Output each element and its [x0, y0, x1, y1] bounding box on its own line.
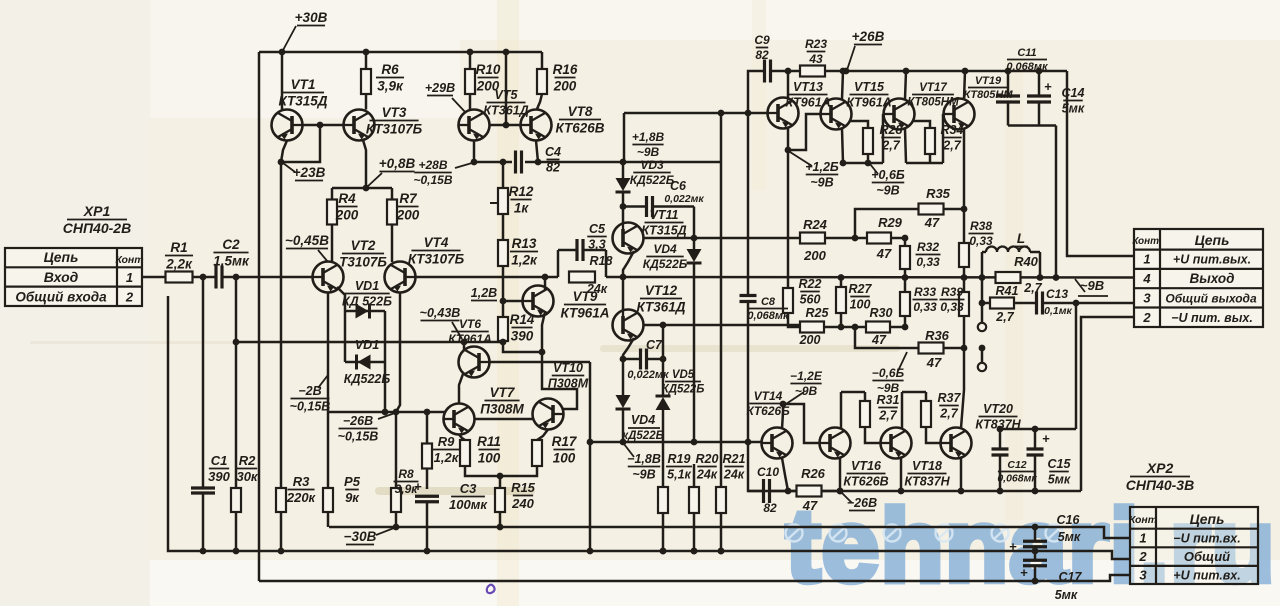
- wire VT11 emitter to output rail: [623, 251, 634, 277]
- wire +26V rail: [846, 70, 1067, 73]
- svg-text:24к: 24к: [586, 282, 608, 296]
- wire VT12 bottom to C7: [623, 338, 634, 359]
- svg-text:R33: R33: [914, 285, 936, 299]
- svg-text:0,068мк: 0,068мк: [747, 310, 790, 322]
- capacitor C3 100mk: [415, 495, 439, 498]
- wire VT16 collector to -26V rail: [839, 458, 842, 491]
- wire +U pit vkh bottom rail to XP2 pin3: [259, 575, 1130, 581]
- svg-text:С3: С3: [460, 481, 477, 496]
- node R18/C5 to VT11-VT12 column: [620, 274, 627, 281]
- svg-text:R4: R4: [338, 191, 356, 206]
- wire VT12 e/c right: [643, 324, 663, 327]
- node VT9 base / 1,2V: [500, 298, 507, 305]
- svg-text:R23: R23: [805, 37, 827, 51]
- svg-text:С17: С17: [1059, 570, 1083, 584]
- resistor R11 100: [460, 440, 470, 466]
- capacitor C10 82: [762, 479, 765, 503]
- resistor R9 1,2k: [426, 412, 429, 444]
- resistor R41 2,7: [982, 302, 990, 305]
- svg-text:VD5: VD5: [672, 369, 695, 381]
- wire VD3 column from C4 line: [620, 159, 627, 166]
- svg-text:ХР1: ХР1: [83, 203, 111, 219]
- svg-text:С16: С16: [1057, 513, 1081, 527]
- wire VD4 column: [693, 207, 696, 250]
- transistor VT16 KT626V: [820, 428, 851, 459]
- transistor VT6 KT961A: [459, 347, 490, 378]
- diode VD1 KD522B (lower, antiparallel pair): [344, 311, 347, 362]
- resistor R25 200: [800, 322, 824, 333]
- svg-text:VT3: VT3: [382, 105, 407, 120]
- svg-text:−U пит.вх.: −U пит.вх.: [1173, 532, 1240, 546]
- resistor R26 47: [788, 490, 797, 493]
- svg-text:L: L: [1017, 231, 1025, 246]
- svg-text:R14: R14: [510, 312, 535, 327]
- svg-text:VT4: VT4: [424, 235, 449, 250]
- node R32 top: [902, 235, 909, 242]
- svg-text:2,7: 2,7: [1023, 281, 1042, 295]
- wire VT7 base to VT10: [475, 418, 534, 421]
- svg-text:П308М: П308М: [548, 376, 589, 390]
- svg-text:+1,2Б: +1,2Б: [805, 160, 839, 174]
- wire +30V top rail: [259, 51, 542, 54]
- capacitor C7 0,022mk: [623, 358, 639, 361]
- svg-text:КТ626В: КТ626В: [556, 120, 605, 135]
- svg-text:82: 82: [763, 501, 777, 515]
- wire VT14 collector to -26V rail: [782, 458, 788, 491]
- svg-text:R20: R20: [696, 452, 719, 466]
- wire VT5-VT8 base tie with pullup: [490, 124, 521, 127]
- diode VD4 KD522B (lower): [616, 395, 631, 408]
- wire VT18 collector to -26V rail: [900, 458, 903, 491]
- svg-text:С12: С12: [1007, 459, 1026, 471]
- node VD4 lower at base line: [620, 439, 627, 446]
- svg-text:кД522Б: кД522Б: [622, 430, 663, 442]
- node C16/C17 at common rail: [1032, 548, 1039, 555]
- wire VT13 collector to +26V rail: [787, 71, 790, 98]
- svg-text:5мк: 5мк: [1062, 101, 1085, 115]
- resistor R1 2,2k: [166, 272, 193, 283]
- svg-text:4: 4: [1142, 271, 1151, 286]
- svg-text:VT16: VT16: [851, 459, 882, 473]
- svg-text:9к: 9к: [345, 490, 360, 505]
- resistor R33 0,33: [904, 278, 907, 293]
- svg-text:1: 1: [1143, 252, 1150, 267]
- wire VT19 emitter down to R35 node: [963, 129, 966, 209]
- resistor R34 2,7: [912, 121, 930, 128]
- resistor R22 560 from VT13 emitter: [787, 150, 790, 288]
- wire VT14 base line: [590, 441, 762, 444]
- node R32 at output rail: [902, 274, 909, 281]
- node -26V label point: [837, 488, 844, 495]
- node output at L right: [1037, 274, 1044, 281]
- svg-text:КТ626В: КТ626В: [843, 474, 888, 488]
- wire VT20 emitter up to R36 node: [961, 348, 964, 428]
- resistor R10 200: [467, 49, 474, 56]
- svg-text:R22: R22: [799, 277, 822, 291]
- svg-text:47: 47: [926, 355, 942, 370]
- svg-text:3: 3: [1139, 568, 1147, 583]
- wire VT13 emitter to VT15 base: [787, 128, 790, 150]
- node +23V: [278, 159, 285, 166]
- capacitor C8 0,068mk: [740, 294, 757, 297]
- node VT14 collector at -26V rail: [785, 488, 792, 495]
- resistor R12 1k: [502, 162, 505, 188]
- wire VT9 emitter column to VT10 base loop: [542, 352, 577, 409]
- wire feedback line to R14 bottom: [236, 341, 503, 344]
- node C11/C14 at output rail: [1053, 274, 1060, 281]
- resistor R19 5,1k: [662, 442, 665, 487]
- svg-text:5мк: 5мк: [1058, 530, 1081, 544]
- resistor R4 200: [331, 188, 334, 200]
- wire C12/C15 top bus: [1000, 428, 1076, 431]
- transistor VT5 KT361D: [459, 110, 490, 141]
- svg-text:R31: R31: [877, 393, 900, 407]
- svg-text:47: 47: [876, 246, 892, 261]
- measurement point open circle upper: [978, 323, 986, 331]
- svg-text:VT8: VT8: [568, 104, 593, 119]
- wire VT1 emitter loop to +23V node: [281, 141, 287, 163]
- svg-text:С7: С7: [646, 338, 663, 352]
- transistor VT13 KT961A: [768, 98, 799, 129]
- svg-text:R10: R10: [476, 62, 501, 77]
- svg-text:+28В: +28В: [418, 158, 447, 172]
- svg-text:С13: С13: [1046, 287, 1068, 301]
- resistor R21 24k: [720, 114, 723, 487]
- wire VT13 base line: [623, 113, 626, 162]
- svg-text:240: 240: [511, 496, 534, 511]
- transistor VT9 KT961A: [523, 286, 554, 317]
- svg-text:Общий входа: Общий входа: [15, 290, 107, 305]
- svg-text:Цепь: Цепь: [1195, 232, 1230, 248]
- svg-text:VD1: VD1: [355, 338, 379, 352]
- svg-text:+U пит.вх.: +U пит.вх.: [1173, 569, 1240, 583]
- wire VT2 collector down to -26V rail and R5: [327, 293, 330, 413]
- svg-text:~9В: ~9В: [876, 183, 899, 197]
- svg-text:R18: R18: [590, 254, 613, 268]
- svg-text:СНП40-3В: СНП40-3В: [1126, 477, 1194, 493]
- wire output mid rail (to Vykhod): [606, 276, 1134, 279]
- node VD4 top: [691, 235, 698, 242]
- svg-text:VT13: VT13: [793, 80, 823, 94]
- svg-text:VT1: VT1: [291, 77, 316, 92]
- resistor R14 390: [502, 301, 505, 317]
- wire VT6 base line corner down: [589, 362, 592, 442]
- svg-text:1,2к: 1,2к: [434, 450, 460, 465]
- wire C4 line: [474, 161, 512, 164]
- transistor VT3 KT3107B: [344, 110, 375, 141]
- svg-text:VT15: VT15: [854, 80, 885, 94]
- svg-text:1к: 1к: [514, 200, 530, 215]
- svg-text:С14: С14: [1062, 86, 1085, 100]
- svg-text:2,7: 2,7: [939, 406, 958, 420]
- node C4 line left end: [471, 159, 478, 166]
- resistor R28 2,7: [850, 121, 868, 128]
- wire VT1 base to VT3: [303, 124, 344, 127]
- wire VT3 collector to +0,8V node: [363, 140, 366, 188]
- svg-text:КТ961А: КТ961А: [561, 305, 610, 320]
- svg-text:КТ3107Б: КТ3107Б: [366, 121, 423, 136]
- svg-text:200: 200: [803, 248, 826, 263]
- svg-text:R19: R19: [668, 452, 691, 466]
- node R14 bottom with feedback line: [502, 341, 505, 342]
- wire XP1 pin1 to R1: [142, 276, 166, 279]
- svg-text:С8: С8: [761, 296, 776, 308]
- svg-text:2,7: 2,7: [995, 310, 1014, 324]
- node VT8 collector on C4 line: [536, 141, 538, 163]
- resistor R15 240: [499, 476, 502, 488]
- svg-text:1,2к: 1,2к: [511, 252, 538, 267]
- transistor VT2 KT3107B: [313, 262, 344, 293]
- resistor R39 0,33: [963, 278, 966, 293]
- svg-text:+U пит.вых.: +U пит.вых.: [1173, 253, 1251, 267]
- svg-text:+29В: +29В: [425, 81, 455, 95]
- svg-text:~0,15В: ~0,15В: [290, 399, 331, 413]
- svg-text:100мк: 100мк: [449, 497, 488, 512]
- node C8 column at base line: [745, 439, 752, 446]
- svg-text:−1,2Е: −1,2Е: [790, 369, 823, 383]
- resistor R36 47 to VT20 emitter: [855, 327, 919, 348]
- node +26V label point: [843, 68, 850, 75]
- wire VT14 emitter top to VT16 base: [782, 404, 783, 429]
- wire VT4 collector down to -26V rail: [396, 293, 400, 413]
- svg-text:С5: С5: [589, 222, 606, 236]
- svg-text:−U пит. вых.: −U пит. вых.: [1171, 311, 1253, 325]
- svg-text:100: 100: [553, 450, 576, 465]
- svg-text:VT19: VT19: [975, 75, 1002, 87]
- svg-text:VT7: VT7: [490, 385, 516, 400]
- capacitor C17 5mk: [1034, 551, 1037, 560]
- svg-text:24к: 24к: [696, 467, 718, 481]
- svg-text:R38: R38: [970, 219, 992, 233]
- capacitor C9 82: [748, 71, 763, 113]
- transistor VT12 KT361D: [622, 277, 625, 310]
- svg-text:30к: 30к: [236, 469, 258, 484]
- svg-text:47: 47: [802, 498, 818, 513]
- resistor R30 47: [855, 326, 866, 329]
- svg-text:R39: R39: [941, 285, 963, 299]
- svg-text:R25: R25: [806, 306, 830, 320]
- svg-text:VT17: VT17: [919, 82, 947, 94]
- svg-text:R35: R35: [926, 186, 951, 201]
- svg-text:КД 522Б: КД 522Б: [342, 294, 392, 308]
- wire VT11 e/c to VD4 column: [643, 237, 694, 240]
- capacitor C14 5mk: [1036, 68, 1043, 75]
- svg-text:24к: 24к: [723, 467, 745, 481]
- wire R34 bottom bus to VT19 base: [906, 162, 943, 165]
- svg-text:П308М: П308М: [480, 401, 524, 416]
- wire VT17 emitter down: [905, 129, 906, 163]
- node C2 output junction: [233, 274, 240, 281]
- diode VD4 KD522B (upper): [687, 249, 702, 262]
- node R41 tap: [979, 300, 986, 307]
- svg-text:Выход: Выход: [1189, 271, 1234, 286]
- svg-text:47: 47: [871, 333, 887, 347]
- svg-text:С4: С4: [545, 145, 561, 159]
- wire VT1 emitter column down to R3: [280, 162, 283, 488]
- node C7 right on VD5 column: [660, 356, 667, 363]
- wire VD1 pair to -26V rail: [384, 362, 387, 412]
- svg-text:Вход: Вход: [44, 269, 79, 285]
- transistor VT10 P308M: [533, 399, 564, 430]
- wire VT6 base to VT14 base line: [490, 361, 591, 364]
- node R24/R29/R35: [852, 235, 859, 242]
- node VT20 emitter / R36 / R39: [961, 345, 968, 352]
- svg-text:2: 2: [125, 290, 134, 305]
- svg-text:КТ961А: КТ961А: [785, 95, 830, 109]
- svg-text:Конт.: Конт.: [1132, 236, 1161, 247]
- svg-text:+: +: [414, 479, 422, 494]
- connector XP2 table: [1130, 507, 1258, 584]
- node R21 column at VT13 base line: [718, 110, 725, 117]
- node VT19 emitter / R35 / R38: [961, 206, 968, 213]
- svg-text:~0,15В: ~0,15В: [413, 173, 452, 187]
- svg-text:VT20: VT20: [983, 402, 1013, 416]
- wire -26V rail left segment: [328, 411, 445, 414]
- resistor R2 30k: [235, 277, 238, 342]
- capacitor C5 3,3 with R18 24k parallel: [557, 250, 560, 277]
- svg-text:+0,6Б: +0,6Б: [871, 168, 905, 182]
- transistor VT4 KT3107B: [385, 262, 416, 293]
- node C9 column at VT13 base line: [745, 110, 752, 117]
- node R12 top on C4 line: [500, 159, 507, 166]
- wire VT9 emitter down: [542, 312, 545, 352]
- svg-text:82: 82: [755, 48, 769, 62]
- svg-text:R30: R30: [870, 306, 893, 320]
- svg-text:~0,45В: ~0,45В: [285, 233, 329, 248]
- svg-text:200: 200: [335, 207, 359, 222]
- svg-text:R41: R41: [996, 284, 1019, 298]
- wire VT9 collector to output rail: [544, 277, 547, 290]
- svg-text:Конт: Конт: [1129, 514, 1157, 526]
- svg-text:КД522Б: КД522Б: [662, 383, 705, 395]
- svg-text:2: 2: [1138, 549, 1147, 564]
- svg-text:0,068мк: 0,068мк: [1006, 61, 1049, 73]
- wire VD4 lower column: [622, 359, 625, 395]
- node R25/R30/R36: [852, 324, 859, 331]
- svg-text:Т3107Б: Т3107Б: [339, 254, 387, 269]
- svg-text:R8: R8: [398, 467, 414, 481]
- svg-text:+1,8В: +1,8В: [632, 130, 665, 144]
- svg-text:+: +: [1042, 431, 1050, 446]
- node R38 at output rail: [961, 274, 968, 281]
- node +30V at VT1 collector: [279, 49, 286, 56]
- svg-text:КТ837Н: КТ837Н: [904, 474, 950, 488]
- svg-text:82: 82: [546, 160, 560, 174]
- svg-text:VT11: VT11: [650, 208, 679, 222]
- svg-text:0,1мк: 0,1мк: [1044, 305, 1072, 317]
- svg-text:220к: 220к: [286, 490, 317, 505]
- wire VT4 base to C5/R18: [416, 276, 558, 279]
- ink scribble artifact: [487, 585, 495, 593]
- node VT15 emitter bottom: [840, 160, 847, 167]
- svg-text:390: 390: [511, 328, 534, 343]
- capacitor C6 0,022mk: [623, 205, 645, 208]
- svg-text:0,33: 0,33: [913, 300, 937, 314]
- svg-text:200: 200: [553, 78, 577, 93]
- capacitor C1 390 (input filter to common): [202, 277, 205, 488]
- diode VD1 KD522B (upper, antiparallel pair): [337, 287, 345, 311]
- transistor VT1 KT315D: [281, 52, 284, 110]
- wire VT5 collector to C4 line: [473, 141, 476, 163]
- svg-text:С9: С9: [754, 33, 770, 47]
- wire VT10 emitter to R17: [537, 430, 548, 441]
- wire R14 bottom to VT9 emitter column: [503, 342, 542, 352]
- wire VT6 collector to feedback node: [463, 342, 466, 350]
- svg-text:R40: R40: [1014, 254, 1039, 269]
- transistor VT19 KT805NM: [944, 99, 975, 130]
- svg-text:VT18: VT18: [912, 459, 942, 473]
- svg-text:−26В: −26В: [343, 414, 373, 428]
- svg-text:3,3: 3,3: [588, 237, 605, 251]
- wire +0,8V node R4-R7: [332, 187, 392, 190]
- resistor R7 200: [391, 188, 394, 200]
- svg-text:390: 390: [208, 469, 230, 484]
- svg-text:Цепь: Цепь: [1190, 511, 1225, 527]
- svg-text:100: 100: [850, 297, 871, 311]
- svg-text:С1: С1: [211, 453, 228, 468]
- svg-text:Общий: Общий: [1184, 549, 1230, 564]
- wire VT19 collector to rail: [964, 71, 965, 99]
- svg-text:R3: R3: [293, 474, 310, 489]
- transistor VT11 KT315D: [613, 223, 644, 254]
- node VT1-VT3 base junction: [317, 122, 324, 129]
- transistor VT17 KT805NM: [884, 99, 915, 130]
- svg-text:VT14: VT14: [754, 389, 783, 403]
- svg-text:5мк: 5мк: [1048, 472, 1071, 486]
- svg-text:КД522Б: КД522Б: [643, 257, 688, 271]
- wire R1 to C2: [193, 276, 217, 279]
- svg-text:+26В: +26В: [852, 29, 885, 44]
- node VD1 at -26V rail: [382, 409, 389, 416]
- wire C11/C14 bottom to output: [1008, 124, 1056, 127]
- wire C8 column to C10: [748, 442, 762, 491]
- resistor R38 0,33: [963, 209, 966, 243]
- svg-text:Общий выхода: Общий выхода: [1165, 292, 1257, 306]
- svg-text:1,2В: 1,2В: [471, 286, 497, 300]
- svg-text:R17: R17: [552, 434, 578, 449]
- svg-text:VD3: VD3: [640, 158, 664, 172]
- svg-text:R36: R36: [925, 328, 950, 343]
- svg-text:Р5: Р5: [344, 474, 361, 489]
- svg-text:+23В: +23В: [293, 165, 326, 180]
- svg-text:R2: R2: [239, 453, 256, 468]
- svg-text:+: +: [1009, 539, 1017, 554]
- node VD3/C6 junction: [620, 203, 627, 210]
- svg-text:КД522Б: КД522Б: [630, 173, 675, 187]
- svg-text:−30В: −30В: [344, 529, 377, 544]
- svg-text:2,2к: 2,2к: [165, 256, 193, 271]
- svg-text:R6: R6: [381, 62, 399, 77]
- svg-text:КТ361Д: КТ361Д: [637, 299, 686, 314]
- node VD4 upper column at base line: [691, 439, 698, 446]
- svg-text:С10: С10: [757, 465, 779, 479]
- svg-text:VD1: VD1: [355, 279, 379, 293]
- svg-text:С6: С6: [670, 179, 687, 193]
- inductor L with R40: [979, 274, 986, 281]
- svg-text:R26: R26: [801, 466, 826, 481]
- svg-text:VD4: VD4: [631, 413, 655, 427]
- wire VT15 collector to rail: [842, 71, 843, 99]
- svg-text:560: 560: [800, 292, 821, 306]
- svg-text:5мк: 5мк: [1055, 588, 1078, 602]
- wire R28 bottom bus to VT17 base: [843, 162, 883, 165]
- transistor VT14 KT626B: [762, 428, 793, 459]
- node common rail junctions: [718, 548, 725, 555]
- wire down to C12/C15 top: [1075, 303, 1078, 429]
- svg-text:3,9к: 3,9к: [377, 78, 404, 93]
- svg-text:2,7: 2,7: [942, 138, 961, 152]
- svg-text:3: 3: [1143, 291, 1151, 306]
